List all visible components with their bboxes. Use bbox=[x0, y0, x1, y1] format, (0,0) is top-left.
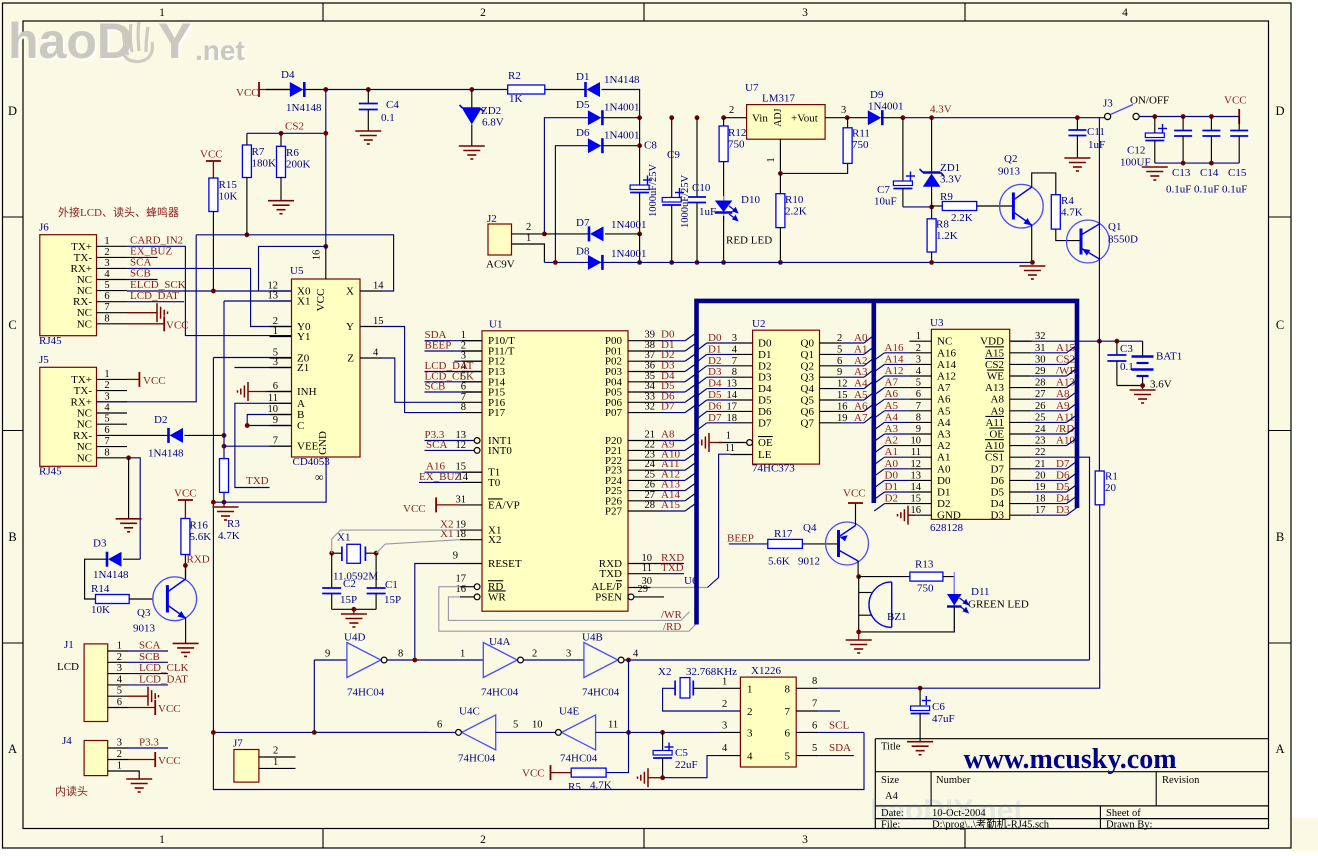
svg-text:1N4001: 1N4001 bbox=[611, 248, 646, 260]
wire WR gray bbox=[448, 597, 681, 621]
junction ADJ node bbox=[778, 171, 783, 176]
junction U4E feedback bbox=[626, 658, 631, 663]
bus entry D6 bbox=[685, 394, 696, 402]
svg-text:0.1uF: 0.1uF bbox=[1222, 184, 1247, 196]
svg-text:7: 7 bbox=[785, 706, 791, 718]
svg-text:C9: C9 bbox=[667, 149, 680, 161]
svg-text:6: 6 bbox=[273, 381, 278, 392]
svg-text:26: 26 bbox=[1035, 401, 1046, 412]
junction ELCD R15 bbox=[211, 289, 216, 294]
svg-text:1N4001: 1N4001 bbox=[604, 130, 639, 142]
resistor R9 2.2K bbox=[942, 202, 976, 211]
pin 1 J2 bbox=[512, 244, 545, 262]
bus data/address bbox=[697, 301, 1078, 625]
svg-text:LCD_DAT: LCD_DAT bbox=[139, 673, 188, 685]
junction pin16 bbox=[323, 244, 328, 249]
svg-text:74HC04: 74HC04 bbox=[582, 687, 620, 699]
svg-text:haoD: haoD bbox=[8, 13, 133, 69]
svg-text:9: 9 bbox=[837, 367, 842, 378]
svg-text:VCC: VCC bbox=[1224, 95, 1247, 107]
wire Q3 emitter bbox=[185, 618, 187, 643]
svg-text:2: 2 bbox=[104, 247, 109, 258]
junction AC1 node bbox=[542, 232, 547, 237]
bus entry A7 U3 bbox=[874, 388, 884, 395]
svg-text:D1: D1 bbox=[885, 481, 898, 493]
wire Q2 emitter to gnd rail bbox=[1031, 225, 1033, 262]
pin 6 U1 bbox=[425, 391, 483, 393]
svg-text:23: 23 bbox=[1035, 436, 1046, 447]
svg-text:U7: U7 bbox=[745, 82, 759, 94]
junction D2 node bbox=[222, 433, 227, 438]
svg-text:NC: NC bbox=[77, 318, 92, 330]
bus entry A6 U3 bbox=[874, 399, 884, 406]
wire D4 to CS2 vertical bbox=[325, 90, 327, 134]
mux U5 CD4053 bbox=[292, 279, 361, 457]
wire U5 B to C bbox=[247, 415, 291, 426]
pin 28 U1 A15 bbox=[628, 510, 662, 512]
battery BAT1 3.6V bbox=[1142, 341, 1144, 356]
sram U3 628128 bbox=[931, 329, 1009, 519]
svg-text:4: 4 bbox=[633, 649, 639, 660]
power VCC pin8 J6 bbox=[127, 323, 164, 325]
wire X0 loop bbox=[259, 246, 326, 291]
resistor R13 750 bbox=[910, 572, 943, 581]
svg-text:Y: Y bbox=[158, 13, 191, 69]
svg-text:180K: 180K bbox=[252, 158, 277, 170]
svg-text:12: 12 bbox=[837, 379, 848, 390]
pin 1 U7 ADJ bbox=[779, 139, 781, 173]
svg-text:A4: A4 bbox=[937, 417, 951, 429]
bus entry A15 bbox=[685, 503, 696, 511]
svg-text:GREEN LED: GREEN LED bbox=[968, 599, 1029, 611]
wire D5 anode from AC bbox=[544, 118, 588, 234]
svg-text:NC: NC bbox=[77, 408, 92, 420]
svg-text:D6: D6 bbox=[708, 400, 722, 412]
svg-text:3.6V: 3.6V bbox=[1150, 379, 1172, 391]
svg-text:D5: D5 bbox=[991, 487, 1005, 499]
pin 17 U1 RD bbox=[460, 586, 474, 588]
bus entry D3 U3R bbox=[1067, 508, 1077, 515]
svg-text:C14: C14 bbox=[1200, 167, 1219, 179]
svg-text:D0: D0 bbox=[758, 338, 772, 350]
junction B-C bbox=[245, 423, 250, 428]
svg-text:1uF: 1uF bbox=[699, 206, 716, 218]
svg-text:10uF: 10uF bbox=[874, 196, 897, 208]
svg-text:A7: A7 bbox=[937, 382, 951, 394]
pin 1 J7 bbox=[259, 767, 296, 769]
svg-text:X: X bbox=[346, 286, 354, 298]
capacitor C13 0.1uF bbox=[1182, 117, 1184, 131]
svg-text:3: 3 bbox=[117, 663, 122, 674]
svg-text:9: 9 bbox=[273, 415, 278, 426]
svg-text:24: 24 bbox=[1035, 424, 1046, 435]
wire to R5 bbox=[606, 732, 628, 772]
svg-text:32: 32 bbox=[1035, 331, 1046, 342]
svg-text:8: 8 bbox=[461, 402, 466, 413]
svg-text:Q1: Q1 bbox=[1108, 221, 1121, 233]
wire SCA to Y0 bbox=[127, 268, 292, 326]
svg-text:D1: D1 bbox=[937, 487, 950, 499]
svg-text:D2: D2 bbox=[758, 360, 771, 372]
pin 2 J2 bbox=[512, 233, 545, 235]
svg-text:6: 6 bbox=[812, 721, 817, 732]
svg-text:T0: T0 bbox=[488, 477, 501, 489]
svg-text:18: 18 bbox=[1035, 494, 1046, 505]
wire SDA bbox=[818, 755, 854, 757]
pin 34 U1 D5 bbox=[628, 391, 662, 393]
bus entry D7 bbox=[685, 405, 696, 413]
svg-text:15P: 15P bbox=[340, 594, 357, 606]
pin 5 U1 bbox=[425, 381, 483, 383]
svg-text:3: 3 bbox=[273, 357, 278, 368]
svg-text:18: 18 bbox=[727, 413, 738, 424]
svg-text:U3: U3 bbox=[930, 317, 944, 329]
bus entry A0 U2 bbox=[864, 336, 874, 343]
svg-text:10: 10 bbox=[911, 436, 922, 447]
connector J6 RJ45 bbox=[40, 235, 97, 336]
wire switched rail to VCC bbox=[1139, 116, 1239, 118]
wire pin4 to gnd node bbox=[663, 756, 719, 778]
svg-text:A6: A6 bbox=[885, 388, 899, 400]
svg-text:BEEP: BEEP bbox=[425, 340, 452, 352]
svg-text:Sheet of: Sheet of bbox=[1106, 808, 1141, 819]
svg-text:.net: .net bbox=[195, 35, 245, 66]
junction Q4 out bbox=[856, 574, 861, 579]
wire SCL long vertical bbox=[213, 358, 864, 790]
svg-text:9: 9 bbox=[453, 551, 458, 562]
svg-text:J2: J2 bbox=[487, 213, 497, 225]
bus entry D4 bbox=[685, 374, 696, 382]
bus entry A2 U2 bbox=[864, 358, 874, 365]
svg-text:750: 750 bbox=[917, 583, 934, 595]
svg-text:D2: D2 bbox=[885, 493, 898, 505]
svg-text:11: 11 bbox=[911, 447, 921, 458]
ground of BAT1 bbox=[1130, 390, 1156, 403]
svg-text:Q7: Q7 bbox=[801, 417, 815, 429]
svg-text:C: C bbox=[8, 318, 16, 332]
bus entry D0 U2 bbox=[697, 343, 707, 350]
svg-text:A13: A13 bbox=[985, 382, 1004, 394]
bus entry A16 U3 bbox=[874, 353, 884, 360]
buzzer BZ1 bbox=[891, 582, 893, 628]
svg-text:D3: D3 bbox=[758, 372, 772, 384]
svg-text:D5: D5 bbox=[576, 99, 590, 111]
pin 2 U7 bbox=[724, 117, 747, 119]
svg-text:D3: D3 bbox=[93, 538, 107, 550]
svg-text:SDA: SDA bbox=[829, 742, 851, 754]
bus entry D6 U3R bbox=[1067, 473, 1077, 480]
resistor R3 4.7K bbox=[220, 459, 229, 493]
bus entry A3 U3 bbox=[874, 434, 884, 441]
svg-text:1: 1 bbox=[726, 431, 731, 442]
wire Z0 SCL bbox=[213, 357, 291, 359]
junction R6 top bbox=[279, 131, 284, 136]
wire X2 pin2 bbox=[663, 688, 741, 711]
svg-text:D8: D8 bbox=[576, 246, 590, 258]
svg-text:2: 2 bbox=[117, 749, 122, 760]
wire R13 to D11 bbox=[943, 577, 954, 594]
wire VDD to battery bbox=[1010, 340, 1143, 342]
bus entry A5 U3 bbox=[874, 411, 884, 418]
svg-text:6: 6 bbox=[117, 697, 122, 708]
svg-text:C4: C4 bbox=[386, 99, 399, 111]
rtc X1226 bbox=[740, 677, 796, 767]
wire X output loop bbox=[196, 235, 393, 291]
pin 2 U1 bbox=[425, 350, 483, 352]
svg-text:74HC04: 74HC04 bbox=[560, 753, 598, 765]
bus entry A9 U3R bbox=[1067, 403, 1077, 410]
diode D8 1N4001 bbox=[588, 255, 602, 270]
capacitor C11 1uF bbox=[1076, 118, 1078, 130]
svg-text:4.3V: 4.3V bbox=[930, 104, 952, 116]
svg-text:D4: D4 bbox=[708, 378, 722, 390]
svg-text:B: B bbox=[1276, 530, 1284, 544]
svg-text:LM317: LM317 bbox=[762, 93, 796, 105]
junction ZD1 bottom node bbox=[929, 205, 934, 210]
svg-text:SCB: SCB bbox=[139, 651, 160, 663]
ground of gnd rail bbox=[1019, 266, 1045, 279]
bus entry D1 U3 bbox=[874, 492, 884, 499]
svg-text:11: 11 bbox=[608, 720, 618, 731]
bus entry D0 U3 bbox=[874, 480, 884, 487]
bus entry A7 U2 bbox=[864, 415, 874, 422]
svg-text:D5: D5 bbox=[708, 389, 722, 401]
junction C14 bbox=[1209, 114, 1214, 119]
wire EX_BUZ bbox=[127, 256, 158, 258]
svg-text:1: 1 bbox=[273, 757, 278, 768]
svg-text:C5: C5 bbox=[675, 747, 688, 759]
svg-text:3: 3 bbox=[104, 391, 109, 402]
svg-text:A8: A8 bbox=[991, 394, 1005, 406]
svg-text:J5: J5 bbox=[39, 354, 49, 366]
svg-text:7: 7 bbox=[104, 302, 109, 313]
svg-text:19: 19 bbox=[1035, 482, 1046, 493]
svg-text:2: 2 bbox=[480, 7, 486, 19]
svg-text:C15: C15 bbox=[1228, 167, 1247, 179]
svg-text:CS2: CS2 bbox=[1056, 353, 1075, 365]
svg-text:Title: Title bbox=[881, 742, 901, 753]
svg-text:1: 1 bbox=[766, 157, 777, 162]
svg-text:6: 6 bbox=[104, 291, 109, 302]
transistor Q2 9013 bbox=[1000, 184, 1044, 228]
svg-text:D7: D7 bbox=[758, 417, 772, 429]
wire LCD_DAT bbox=[127, 301, 184, 303]
wire CS1 to gate chain bbox=[1032, 457, 1090, 660]
svg-text:8: 8 bbox=[104, 313, 109, 324]
svg-text:VCC: VCC bbox=[843, 488, 866, 500]
svg-text:16: 16 bbox=[837, 401, 848, 412]
junction crystal gnd bbox=[352, 607, 357, 612]
svg-text:8550D: 8550D bbox=[1108, 234, 1138, 246]
wire C3 bottom to battery minus bbox=[1117, 385, 1143, 387]
bus entry D7 U2 bbox=[697, 423, 707, 430]
wire X2 pin1 bbox=[693, 687, 718, 689]
junction D8 anode bbox=[553, 260, 558, 265]
svg-text:VCC: VCC bbox=[315, 289, 327, 312]
svg-text:A3: A3 bbox=[885, 423, 899, 435]
svg-text:A12: A12 bbox=[885, 365, 904, 377]
pin 35 U1 D4 bbox=[628, 381, 662, 383]
svg-text:D1: D1 bbox=[758, 349, 771, 361]
svg-text:INH: INH bbox=[297, 386, 317, 398]
wire switched VCC vertical bbox=[1098, 118, 1100, 342]
wire RESET bbox=[415, 564, 460, 661]
svg-text:D7: D7 bbox=[661, 401, 675, 413]
bus entry A11 U3R bbox=[1067, 415, 1077, 422]
wire CARD_IN2 to Y1 bbox=[127, 246, 292, 335]
svg-text:32: 32 bbox=[645, 402, 656, 413]
bus entry A6 U2 bbox=[864, 404, 874, 411]
svg-text:A15: A15 bbox=[985, 347, 1004, 359]
svg-text:5: 5 bbox=[104, 414, 109, 425]
svg-text:Drawn By:: Drawn By: bbox=[1106, 820, 1152, 831]
pin 1 U1 bbox=[425, 340, 483, 342]
capacitor C4 0.1 bbox=[367, 90, 369, 104]
svg-text:9: 9 bbox=[325, 649, 330, 660]
transistor Q3 9013 bbox=[153, 577, 197, 621]
svg-text:20: 20 bbox=[1035, 470, 1046, 481]
ground of R3 node bbox=[223, 502, 225, 507]
svg-text:D1: D1 bbox=[576, 71, 589, 83]
pin 6 J1 bbox=[108, 707, 128, 709]
svg-text:R4: R4 bbox=[1061, 195, 1074, 207]
ground of J5 pin8 bbox=[116, 519, 142, 532]
svg-text:2: 2 bbox=[729, 105, 734, 116]
svg-text:5: 5 bbox=[837, 344, 842, 355]
resistor R15 10K bbox=[209, 178, 218, 212]
junction R12 top bbox=[721, 115, 726, 120]
svg-text:VCC: VCC bbox=[403, 503, 426, 515]
svg-text:EX_BUZ: EX_BUZ bbox=[419, 471, 461, 483]
bus entry D5 bbox=[685, 384, 696, 392]
svg-text:R3: R3 bbox=[227, 518, 240, 530]
svg-text:BEEP: BEEP bbox=[727, 533, 754, 545]
svg-text:Size: Size bbox=[881, 775, 899, 786]
capacitor C14 0.1uF bbox=[1210, 117, 1212, 131]
svg-text:31: 31 bbox=[1035, 343, 1046, 354]
svg-text:6: 6 bbox=[104, 425, 109, 436]
svg-text:AC9V: AC9V bbox=[486, 259, 515, 271]
svg-text:17: 17 bbox=[1035, 505, 1046, 516]
svg-text:14: 14 bbox=[727, 390, 738, 401]
svg-text:www.mcusky.com: www.mcusky.com bbox=[963, 744, 1176, 775]
svg-text:R14: R14 bbox=[91, 583, 110, 595]
bus entry D5 U2 bbox=[697, 400, 707, 407]
wire Q3 collector bbox=[185, 565, 187, 579]
svg-text:A9: A9 bbox=[991, 405, 1005, 417]
svg-text:Q2: Q2 bbox=[1004, 153, 1017, 165]
wire R3 node to U5 GND pin bbox=[213, 457, 326, 502]
pin 39 U1 D0 bbox=[628, 340, 662, 342]
svg-text:Q3: Q3 bbox=[137, 607, 151, 619]
gnd rail bottom wire bbox=[544, 261, 1032, 263]
svg-text:28: 28 bbox=[1035, 378, 1046, 389]
svg-text:20: 20 bbox=[1105, 482, 1117, 494]
svg-text:10: 10 bbox=[268, 404, 279, 415]
bus entry A2 U3 bbox=[874, 446, 884, 453]
crystal X2 32.768KHz bbox=[680, 678, 690, 698]
pin 22 U1 A9 bbox=[628, 449, 662, 451]
svg-text:CS1: CS1 bbox=[985, 452, 1004, 464]
svg-text:7: 7 bbox=[812, 699, 817, 710]
svg-text:A7: A7 bbox=[885, 377, 899, 389]
power VCC pin6 J1 bbox=[128, 707, 155, 709]
ground of R6 bbox=[268, 201, 294, 214]
bus entry A8 U3R bbox=[1067, 392, 1077, 399]
capacitor C1 15P bbox=[375, 553, 377, 588]
svg-text:1: 1 bbox=[159, 834, 165, 846]
svg-text:TXD: TXD bbox=[661, 562, 684, 574]
pin 2 J1 bbox=[108, 661, 128, 663]
svg-text:A5: A5 bbox=[885, 400, 899, 412]
svg-text:D3: D3 bbox=[708, 366, 722, 378]
svg-text:47uF: 47uF bbox=[932, 713, 955, 725]
svg-text:3: 3 bbox=[802, 834, 808, 846]
svg-text:D4: D4 bbox=[991, 498, 1005, 510]
wire D6 anode to AC2 bbox=[555, 146, 588, 263]
capacitor C2 15P bbox=[331, 553, 333, 588]
svg-text:74HC04: 74HC04 bbox=[458, 753, 496, 765]
svg-text:A10: A10 bbox=[985, 440, 1004, 452]
svg-text:SCL: SCL bbox=[829, 720, 849, 732]
wire pin8 J5 bbox=[127, 458, 140, 559]
pin 4 X1226 bbox=[718, 755, 740, 757]
resistor R14 10K bbox=[96, 595, 130, 604]
svg-text:2: 2 bbox=[722, 699, 727, 710]
svg-text:3: 3 bbox=[802, 7, 808, 19]
wire CS2 bbox=[247, 132, 326, 134]
wire D11 to gnd row bbox=[859, 607, 955, 632]
pin 1 J1 bbox=[108, 650, 128, 652]
bus entry D6 U2 bbox=[697, 411, 707, 418]
svg-text:15P: 15P bbox=[384, 594, 401, 606]
svg-text:1K: 1K bbox=[509, 93, 523, 105]
bus entry CS2 U3R bbox=[1067, 357, 1077, 364]
svg-text:OE: OE bbox=[758, 437, 773, 449]
ground of C4 bbox=[355, 131, 381, 144]
svg-text:/RD: /RD bbox=[663, 621, 681, 633]
wire cap bottoms bbox=[1155, 162, 1239, 164]
svg-text:R1: R1 bbox=[1105, 471, 1118, 483]
svg-text:B: B bbox=[8, 530, 16, 544]
capacitor C15 0.1uF bbox=[1238, 117, 1240, 131]
svg-text:18: 18 bbox=[456, 529, 467, 540]
wire BEEP bbox=[729, 543, 768, 545]
svg-text:12: 12 bbox=[456, 440, 467, 451]
svg-text:0.1uF: 0.1uF bbox=[1194, 184, 1219, 196]
junction C7 branch bbox=[901, 115, 906, 120]
svg-text:7: 7 bbox=[916, 401, 921, 412]
ground pin5 J1 bbox=[128, 695, 148, 697]
pin 3 U7 bbox=[825, 117, 847, 119]
svg-text:A16: A16 bbox=[937, 347, 956, 359]
wire D3 anode from J5 pin8 bbox=[123, 558, 140, 560]
diode D6 1N4001 bbox=[588, 138, 602, 153]
pin 23 U1 A10 bbox=[628, 459, 662, 461]
svg-text:15: 15 bbox=[911, 494, 922, 505]
diode D9 1N4001 bbox=[848, 117, 868, 119]
pin 26 U1 A13 bbox=[628, 490, 662, 492]
svg-text:C2: C2 bbox=[343, 578, 356, 590]
pin 3 U1 bbox=[454, 360, 482, 362]
capacitor C7 10uF bbox=[902, 118, 904, 181]
svg-text:Vin: Vin bbox=[752, 113, 768, 125]
svg-text:7: 7 bbox=[732, 356, 737, 367]
svg-text:VCC: VCC bbox=[158, 703, 181, 715]
svg-text:0.1: 0.1 bbox=[1120, 361, 1134, 373]
resistor R5 4.7K bbox=[571, 768, 606, 777]
wire pin6 J5 to D2 bbox=[127, 434, 169, 436]
